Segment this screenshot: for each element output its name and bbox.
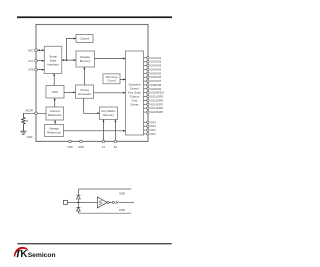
pin GND (bottom) [78,140,84,149]
svg-text:Reference: Reference [48,113,62,117]
VDD rail [78,189,131,195]
wire Display Memory to Segment Driver [95,58,126,60]
pin SG13/GR7 [144,102,164,106]
wire Current Reference to OSC [54,98,56,107]
diode D2 (to GND) [77,202,81,213]
pin SG12/GR8 [144,98,164,102]
wire CLK pin to SDI [37,60,44,62]
junction node [78,202,80,204]
svg-text:SG11/GR9: SG11/GR9 [150,95,163,99]
svg-text:SG15/GR5: SG15/GR5 [150,110,163,114]
pin STB [28,68,37,72]
svg-text:SG5/KS5: SG5/KS5 [150,71,161,75]
wire OSC to Timing Generator [64,91,76,93]
GND rail [78,208,131,213]
IC outer boundary box [36,25,148,142]
svg-text:GND: GND [27,135,33,139]
svg-text:OSC: OSC [52,90,59,94]
svg-text:Driver: Driver [131,103,139,107]
svg-text:Reference: Reference [47,131,61,135]
svg-text:SG9/KS9: SG9/KS9 [150,87,161,91]
svg-text:GR2: GR2 [150,128,156,132]
wire DI/O pin to SDI (bidirectional) [37,49,44,51]
pin CLK [28,59,37,63]
wire Timing Generator to Segment Driver [94,92,126,94]
wire K2 pin to Key Matrix Memory [114,120,116,142]
svg-text:SG7/KS7: SG7/KS7 [150,79,161,83]
pin GR3 [144,124,157,128]
svg-text:Interface: Interface [47,63,59,67]
svg-text:SG1/KS1: SG1/KS1 [150,56,161,60]
output wire with break [109,201,134,204]
svg-text:Semicon: Semicon [28,252,56,259]
pin GR2 [144,128,157,132]
svg-text:VDD: VDD [119,191,125,195]
svg-text:GND: GND [78,145,84,149]
svg-text:SG12/GR8: SG12/GR8 [150,98,163,102]
svg-text:K1: K1 [102,145,106,149]
pin SG15/GR5 [144,110,164,114]
wire pad to buffer [68,201,98,203]
wire Timing Generator to Display Memory [83,67,85,85]
svg-text:GR4: GR4 [150,120,156,124]
svg-text:ADJR: ADJR [26,109,33,113]
wire STB pin to SDI [37,69,44,71]
ESD cell: pad [64,200,68,204]
svg-text:SG2/KS2: SG2/KS2 [150,60,161,64]
svg-text:VDD: VDD [67,145,73,149]
wire junction to Control [67,38,77,61]
inverter bubble [107,201,109,203]
svg-text:SG3/KS3: SG3/KS3 [150,64,161,68]
wire Dimming Circuit to Segment Driver [120,79,126,81]
svg-text:DI/O: DI/O [28,48,33,52]
svg-text:Memory: Memory [103,113,114,117]
svg-text:Generator: Generator [78,92,92,96]
svg-text:STB: STB [28,68,33,72]
pin SG4/KS4 [144,67,162,71]
wire Voltage Reference to Segment Driver [64,130,126,132]
pin SG9/KS9 [144,87,162,91]
svg-text:K: K [20,249,27,260]
pin GR1 [144,132,157,136]
svg-text:Control: Control [80,37,90,41]
pin K1 [102,140,106,149]
schmitt buffer U2 [97,197,107,208]
top rule [17,16,172,18]
block U1 Serial Data Interface [44,46,61,73]
wire K1 pin to Key Matrix Memory [103,120,105,142]
svg-text:SG6/KS6: SG6/KS6 [150,75,161,79]
logo TKSemicon [14,247,56,260]
pin GR4 [144,120,157,124]
svg-text:Circuit: Circuit [107,79,116,83]
pin SG7/KS7 [144,79,162,83]
block Current Reference [46,107,64,120]
svg-text:SG8/KS8: SG8/KS8 [150,83,161,87]
pin K2 [114,140,118,149]
pin SG2/KS2 [144,60,162,64]
svg-text:SG4/KS4: SG4/KS4 [150,67,161,71]
svg-text:SG14/GR6: SG14/GR6 [150,106,163,110]
block Timing Generator [76,85,94,98]
svg-text:GR1: GR1 [150,132,156,136]
pin SG6/KS6 [144,75,162,79]
pin SG3/KS3 [144,64,162,68]
block OSC [46,86,64,99]
block Display Memory [76,51,95,67]
svg-text:R: R [26,119,28,123]
svg-text:SG13/GR7: SG13/GR7 [150,102,163,106]
svg-text:SG10/KS10: SG10/KS10 [150,91,164,95]
pin SG14/GR6 [144,106,164,110]
block Dimming Circuit [103,74,120,84]
svg-text:CLK: CLK [28,59,33,63]
block Segment Driver / Key Scan Output / Grid Driver [126,51,144,135]
block Control [76,35,93,43]
pin SG1/KS1 [144,56,162,60]
ground [20,131,32,139]
diode D1 (to VDD) [77,189,81,202]
wire OSC to SDI [53,74,55,86]
wire SDI to Display Memory (bidirectional) [62,59,76,61]
pin DI/O [28,48,37,52]
block Voltage Reference [45,125,64,137]
pin ADJR wire and label [23,109,46,115]
svg-text:K2: K2 [114,145,118,149]
pin SG5/KS5 [144,71,162,75]
pin SG10/KS10 [144,91,165,95]
wire Voltage Reference to Current Reference [54,120,56,125]
svg-text:GR3: GR3 [150,124,156,128]
junction node [66,59,68,61]
block Key Matrix Memory [100,107,118,120]
pin SG8/KS8 [144,83,162,87]
svg-text:Memory: Memory [80,59,91,63]
footer rule [17,243,171,244]
pin SG11/GR9 [144,95,164,99]
wire Timing Generator to Key Matrix Memory [84,98,100,114]
resistor R external [22,113,29,131]
svg-text:GND: GND [119,208,125,212]
pin VDD (bottom) [67,140,73,149]
